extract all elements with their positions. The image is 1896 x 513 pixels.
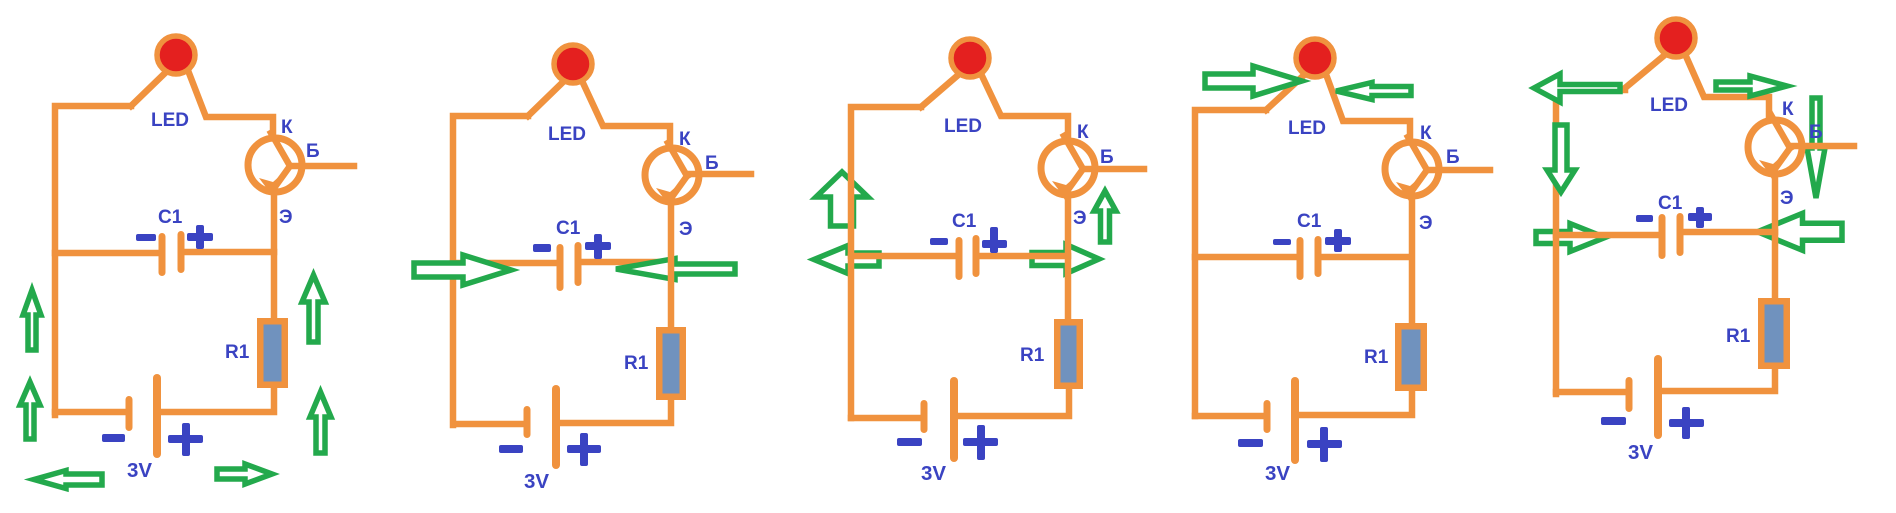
svg-text:К: К <box>281 117 293 138</box>
svg-text:C1: C1 <box>1297 211 1322 232</box>
svg-text:LED: LED <box>944 116 982 137</box>
svg-text:LED: LED <box>548 124 586 145</box>
svg-text:Э: Э <box>1419 213 1433 234</box>
svg-text:Б: Б <box>1446 147 1460 168</box>
svg-text:Э: Э <box>1073 208 1087 229</box>
svg-text:C1: C1 <box>1658 193 1683 214</box>
svg-text:К: К <box>1077 122 1089 143</box>
svg-text:Б: Б <box>1809 122 1823 143</box>
svg-text:C1: C1 <box>158 207 183 228</box>
svg-text:C1: C1 <box>556 218 581 239</box>
svg-text:К: К <box>1782 99 1794 120</box>
svg-text:3V: 3V <box>127 459 152 482</box>
svg-text:LED: LED <box>1650 95 1688 116</box>
svg-text:Б: Б <box>1100 147 1114 168</box>
svg-text:Э: Э <box>679 219 693 240</box>
svg-text:3V: 3V <box>1628 441 1653 464</box>
svg-text:Б: Б <box>705 153 719 174</box>
svg-text:3V: 3V <box>1265 462 1290 485</box>
svg-text:R1: R1 <box>1364 347 1389 368</box>
svg-text:Э: Э <box>1780 188 1794 209</box>
svg-text:Э: Э <box>279 207 293 228</box>
svg-text:LED: LED <box>151 110 189 131</box>
svg-text:К: К <box>679 129 691 150</box>
svg-text:C1: C1 <box>952 211 977 232</box>
svg-text:К: К <box>1420 123 1432 144</box>
svg-text:3V: 3V <box>921 462 946 485</box>
svg-text:R1: R1 <box>1726 326 1751 347</box>
svg-text:R1: R1 <box>624 353 649 374</box>
svg-text:LED: LED <box>1288 118 1326 139</box>
svg-text:3V: 3V <box>524 470 549 493</box>
svg-text:R1: R1 <box>1020 345 1045 366</box>
svg-text:Б: Б <box>306 141 320 162</box>
svg-text:R1: R1 <box>225 342 250 363</box>
